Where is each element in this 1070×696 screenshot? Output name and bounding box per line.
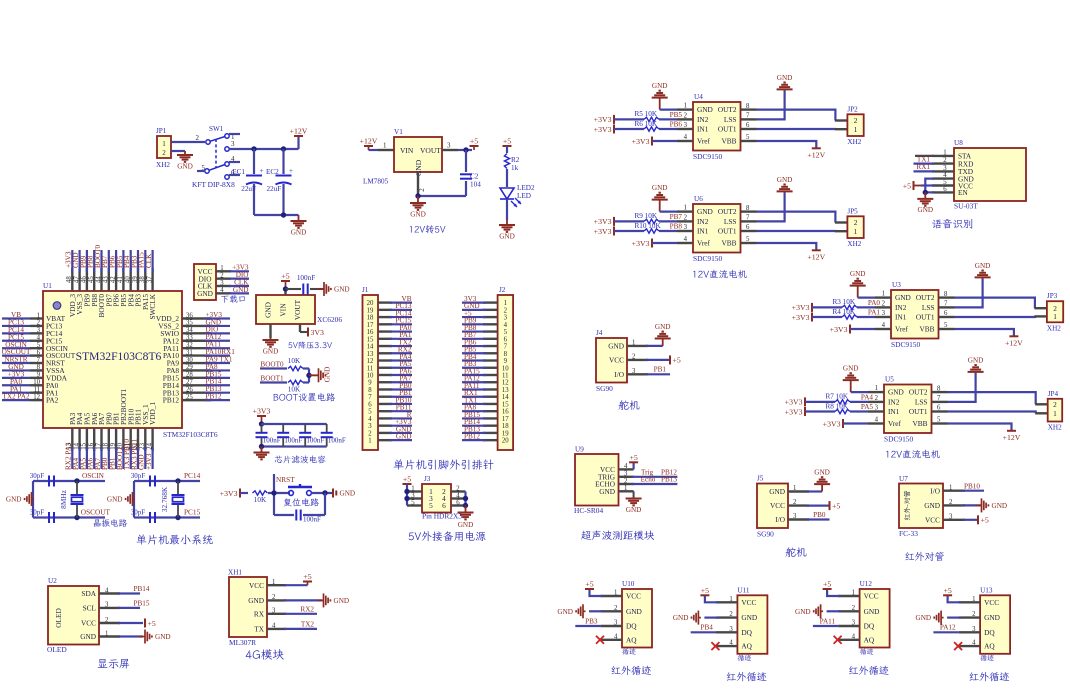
node V1 gnd bbox=[415, 193, 420, 198]
pin U1.37 SWCLK bbox=[151, 268, 153, 291]
svg-text:2: 2 bbox=[614, 605, 618, 612]
svg-text:PC15: PC15 bbox=[184, 508, 201, 517]
wire OUT1 to JP5 bbox=[757, 230, 836, 232]
svg-text:VCC: VCC bbox=[626, 592, 641, 601]
svg-text:OSCOUT: OSCOUT bbox=[81, 508, 111, 517]
svg-text:IN2: IN2 bbox=[697, 115, 709, 124]
svg-text:1: 1 bbox=[1053, 312, 1057, 321]
wire gnd U7 bbox=[963, 504, 981, 506]
connector J5 SG90 bbox=[757, 484, 788, 529]
power +12V U6 bbox=[812, 249, 821, 251]
svg-text:GND: GND bbox=[6, 496, 22, 504]
wire reset bottom bbox=[274, 514, 294, 516]
svg-text:AQ: AQ bbox=[984, 642, 995, 651]
ground port reset bbox=[333, 489, 336, 498]
svg-text:GND: GND bbox=[263, 347, 279, 355]
caption servo J4 bbox=[619, 400, 640, 410]
wire net PB7 bbox=[462, 338, 486, 340]
power +3V3 U6 Vref bbox=[651, 239, 653, 248]
pin U1.18 PB0 bbox=[108, 428, 110, 451]
wire vcc U7 bbox=[963, 519, 977, 521]
svg-text:J4: J4 bbox=[596, 329, 603, 337]
wire net PB5 bbox=[462, 352, 486, 354]
pin U11.4 bbox=[716, 645, 737, 647]
resistor R7 10K bbox=[835, 400, 850, 404]
module U10 tracking bbox=[622, 589, 652, 648]
svg-text:1: 1 bbox=[875, 385, 878, 392]
capacitor 100nF filter 2 bbox=[282, 424, 284, 433]
wire +5 U8 bbox=[921, 184, 934, 186]
wire JP1.1 to SW1 bbox=[171, 141, 205, 143]
svg-text:100nF: 100nF bbox=[303, 516, 321, 524]
svg-text:GND: GND bbox=[895, 293, 911, 302]
pin U7.1 bbox=[943, 490, 965, 492]
svg-text:32: 32 bbox=[186, 342, 193, 349]
svg-text:3: 3 bbox=[943, 165, 947, 172]
wire BOOT1 res to node bbox=[303, 381, 309, 383]
ground U3 pin1 bbox=[850, 279, 866, 298]
pin U4.6 bbox=[741, 128, 757, 130]
wire net PA11 bbox=[205, 347, 230, 349]
pin U1.33 PA12 bbox=[182, 340, 211, 342]
ground U4 pin1 bbox=[652, 91, 668, 110]
svg-text:OUT2: OUT2 bbox=[718, 105, 737, 114]
wire net PB0 bbox=[108, 447, 110, 469]
wire net PB7 bbox=[108, 250, 110, 272]
svg-text:VOUT: VOUT bbox=[420, 146, 441, 155]
pin U1.10 PA0 bbox=[30, 384, 43, 386]
capacitor 30pF bottom bbox=[49, 512, 54, 523]
pin U13.3 bbox=[959, 631, 980, 633]
svg-text:2: 2 bbox=[972, 611, 976, 618]
wire vref bbox=[652, 140, 677, 142]
ground J3 bbox=[458, 506, 474, 520]
pin U12.2 bbox=[838, 610, 859, 612]
pin J2.5 bbox=[483, 330, 498, 332]
pin U1.17 PA7 bbox=[100, 428, 102, 451]
svg-text:1: 1 bbox=[624, 485, 627, 492]
wire net PB3 bbox=[462, 367, 486, 369]
wire net PA6 bbox=[390, 374, 412, 376]
svg-text:2: 2 bbox=[854, 116, 858, 125]
wire OUT1 to JP3 bbox=[955, 315, 1035, 318]
svg-text:+5: +5 bbox=[701, 586, 709, 595]
svg-text:TX2: TX2 bbox=[301, 621, 315, 629]
node U8 gnd bbox=[923, 190, 928, 195]
ground port xtal2 bbox=[126, 492, 135, 506]
pin U1.45 PB8 bbox=[93, 268, 95, 291]
svg-text:5: 5 bbox=[944, 322, 948, 329]
wire +5 U2 bbox=[118, 622, 143, 624]
caption tracking U12 bbox=[849, 666, 889, 675]
svg-text:LM7805: LM7805 bbox=[363, 178, 389, 186]
power +5 U10 bbox=[585, 588, 594, 590]
svg-text:8MHz: 8MHz bbox=[59, 489, 68, 508]
wire EN U8 bbox=[925, 191, 934, 193]
svg-text:VCC: VCC bbox=[864, 592, 879, 601]
svg-text:3: 3 bbox=[972, 626, 976, 633]
pin U5.7 bbox=[932, 401, 948, 403]
svg-text:3V3: 3V3 bbox=[311, 328, 325, 337]
pin U5.5 bbox=[932, 422, 948, 424]
svg-text:5: 5 bbox=[37, 342, 41, 349]
capacitor 100nF filter 4 bbox=[326, 424, 328, 433]
node J3 +5 a bbox=[404, 489, 409, 494]
wire net PB10 bbox=[390, 403, 412, 405]
svg-text:JP3: JP3 bbox=[1047, 292, 1058, 300]
svg-text:OUT1: OUT1 bbox=[718, 125, 737, 134]
wire net PA0 bbox=[2, 384, 30, 386]
resistor R9 10K bbox=[644, 219, 659, 223]
svg-text:JP1: JP1 bbox=[156, 127, 167, 135]
svg-text:I/O: I/O bbox=[614, 370, 624, 379]
svg-text:R4 10K: R4 10K bbox=[833, 308, 856, 316]
svg-text:GND: GND bbox=[155, 633, 171, 641]
connector download port bbox=[194, 264, 216, 300]
svg-text:GND: GND bbox=[652, 82, 668, 90]
wire net PA1 bbox=[2, 392, 30, 394]
pin U1.46 PB9 bbox=[86, 268, 88, 291]
caption 4G module bbox=[246, 649, 284, 660]
wire net PB1 bbox=[390, 396, 412, 398]
pin V1.1 bbox=[378, 149, 394, 151]
svg-text:GND: GND bbox=[655, 323, 671, 331]
svg-text:2: 2 bbox=[943, 157, 947, 164]
pin J2.2 bbox=[483, 309, 498, 311]
pin U2.3 bbox=[99, 607, 120, 609]
svg-text:15: 15 bbox=[367, 336, 374, 343]
pin U9.4 bbox=[619, 468, 634, 470]
pin DL.2 bbox=[216, 277, 231, 279]
svg-text:GND: GND bbox=[324, 367, 332, 383]
svg-text:7: 7 bbox=[37, 357, 41, 364]
pin U8.2 bbox=[932, 162, 954, 164]
svg-text:38: 38 bbox=[139, 276, 146, 283]
caption infrared pair bbox=[905, 552, 943, 561]
pin U1.1 VBAT bbox=[30, 317, 43, 319]
wire GND U8 bbox=[925, 179, 934, 193]
module XH1 4G bbox=[229, 577, 267, 637]
wire net PA6 bbox=[93, 447, 95, 469]
ground filter caps bbox=[254, 447, 270, 460]
pin U9.2 bbox=[619, 483, 634, 485]
svg-text:+5: +5 bbox=[981, 516, 989, 525]
svg-text:OUT2: OUT2 bbox=[718, 207, 737, 216]
pin U1.43 PB7 bbox=[108, 268, 110, 291]
wire net GND bbox=[78, 250, 80, 272]
svg-text:+5: +5 bbox=[903, 181, 911, 190]
wire OUT2 to JP3 bbox=[955, 298, 1035, 309]
svg-text:8: 8 bbox=[937, 385, 941, 392]
pin U10.2 bbox=[601, 610, 622, 612]
svg-text:GND: GND bbox=[107, 496, 123, 504]
svg-text:PA12: PA12 bbox=[940, 624, 956, 632]
svg-text:19: 19 bbox=[367, 307, 374, 314]
pins J3 right bbox=[451, 490, 466, 492]
connector J2 bbox=[498, 295, 513, 450]
svg-text:OLED: OLED bbox=[47, 645, 67, 654]
svg-text:9: 9 bbox=[37, 372, 41, 379]
svg-text:GND: GND bbox=[843, 365, 859, 373]
svg-text:10K: 10K bbox=[288, 386, 301, 394]
wire to resistor bbox=[614, 118, 644, 120]
svg-text:GND: GND bbox=[177, 162, 193, 170]
svg-text:XH2: XH2 bbox=[847, 240, 861, 248]
wire vref bbox=[843, 422, 868, 424]
wire button to gnd bbox=[312, 492, 333, 494]
node xtal1 bottom bbox=[74, 515, 79, 520]
pin DL.3 bbox=[216, 285, 231, 287]
wire gnd to pin1 bbox=[851, 391, 868, 393]
svg-text:16: 16 bbox=[502, 409, 509, 416]
wire PB14 bbox=[118, 592, 140, 594]
wire PA11 bbox=[813, 625, 838, 627]
wire to resistor bbox=[812, 316, 842, 318]
svg-text:PB4: PB4 bbox=[701, 624, 714, 632]
pin JP5.1 bbox=[835, 230, 848, 232]
pin U1.32 PA11 bbox=[182, 347, 211, 349]
connector JP2 bbox=[847, 114, 863, 136]
pin J1.5 bbox=[378, 410, 392, 412]
wire gnd U12 bbox=[827, 610, 841, 612]
svg-text:I/O: I/O bbox=[930, 486, 940, 495]
svg-text:3: 3 bbox=[793, 513, 797, 520]
pin U8.4 bbox=[932, 177, 954, 179]
pin U10.4 bbox=[601, 639, 622, 641]
svg-text:LSS: LSS bbox=[915, 398, 928, 407]
wire net TX1 bbox=[462, 403, 486, 405]
pin XH1.2 bbox=[267, 599, 286, 601]
wire filter top rail bbox=[262, 423, 327, 425]
svg-text:104: 104 bbox=[470, 181, 481, 189]
node xtal1 top bbox=[74, 478, 79, 483]
power +3V3 U4 IN2 bbox=[613, 115, 615, 124]
power 3V3 out bbox=[307, 328, 309, 337]
wire net PB3 bbox=[137, 250, 139, 272]
svg-text:+3V3: +3V3 bbox=[830, 325, 848, 334]
svg-text:4: 4 bbox=[684, 236, 688, 243]
power +5 output bbox=[470, 145, 479, 147]
svg-text:GND: GND bbox=[458, 521, 474, 529]
svg-text:SDC9150: SDC9150 bbox=[891, 340, 920, 349]
svg-text:17: 17 bbox=[502, 416, 509, 423]
wire net PB14 bbox=[205, 384, 230, 386]
wire SW1 pin4 stub bbox=[229, 161, 240, 163]
wire TX2 bbox=[284, 628, 317, 630]
svg-text:18: 18 bbox=[502, 423, 509, 430]
power +3V3 U6 IN1 bbox=[613, 227, 615, 236]
wire gnd J5 bbox=[807, 490, 822, 492]
svg-text:PA0: PA0 bbox=[868, 299, 881, 307]
wire gnd to pin1 bbox=[858, 297, 875, 299]
resistor R2 1k bbox=[504, 154, 509, 169]
svg-text:+: + bbox=[260, 167, 264, 175]
svg-text:6: 6 bbox=[37, 349, 41, 356]
wire VBB to +12V bbox=[948, 424, 1012, 431]
svg-text:Vref: Vref bbox=[697, 239, 710, 248]
svg-text:PB1: PB1 bbox=[654, 366, 667, 374]
pin U4.8 bbox=[741, 108, 757, 110]
svg-text:5: 5 bbox=[746, 134, 750, 141]
svg-text:6: 6 bbox=[746, 122, 750, 129]
wire net BOOT1 bbox=[122, 447, 124, 469]
svg-text:2: 2 bbox=[852, 605, 856, 612]
caption filter caps bbox=[275, 455, 326, 463]
pin U5.4 bbox=[868, 422, 884, 424]
svg-text:1: 1 bbox=[105, 630, 108, 637]
power +3V3 U5 IN2 bbox=[804, 397, 806, 406]
connector JP5 bbox=[847, 216, 863, 238]
wire cap to GND port bbox=[310, 288, 324, 290]
svg-text:IN1: IN1 bbox=[888, 407, 900, 416]
pin U1.27 PB14 bbox=[182, 384, 211, 386]
pin U1.16 PA6 bbox=[93, 428, 95, 451]
svg-text:16: 16 bbox=[367, 329, 374, 336]
pin U1.29 PA8 bbox=[182, 369, 211, 371]
module U11 tracking bbox=[737, 595, 767, 654]
pin U3.7 bbox=[939, 306, 955, 308]
svg-text:VCC: VCC bbox=[81, 619, 96, 628]
svg-text:8: 8 bbox=[746, 205, 750, 212]
svg-text:SDC9150: SDC9150 bbox=[693, 152, 722, 161]
caption BOOT circuit bbox=[273, 393, 335, 402]
wire net +5 bbox=[462, 316, 486, 318]
svg-text:CLK: CLK bbox=[145, 253, 153, 268]
svg-text:GND: GND bbox=[197, 289, 213, 298]
resistor R4 10K bbox=[842, 315, 857, 319]
svg-text:6: 6 bbox=[442, 501, 446, 510]
pin U1.24 VDD_1 bbox=[151, 428, 153, 451]
svg-text:1: 1 bbox=[684, 103, 687, 110]
svg-text:XH2: XH2 bbox=[1048, 424, 1062, 432]
power +5 U12 bbox=[823, 588, 832, 590]
wire net PA10RX1 bbox=[205, 355, 230, 357]
pin U1.39 PB3 bbox=[137, 268, 139, 291]
pin U1.8 VSSA bbox=[30, 369, 43, 371]
svg-text:2: 2 bbox=[729, 611, 733, 618]
svg-text:11: 11 bbox=[502, 373, 509, 380]
pin U1.11 PA1 bbox=[30, 392, 43, 394]
svg-text:30pF: 30pF bbox=[131, 472, 146, 480]
pin U6.3 bbox=[677, 230, 693, 232]
svg-text:GND: GND bbox=[334, 286, 350, 294]
pin U2.4 bbox=[99, 592, 120, 594]
node xtal2 bottom bbox=[175, 515, 180, 520]
svg-text:EC2: EC2 bbox=[266, 168, 279, 176]
pin J5.2 bbox=[788, 504, 809, 506]
pin U6.4 bbox=[677, 242, 693, 244]
wire SW1.3 to +12V rail bbox=[229, 148, 299, 150]
wire gnd U11 bbox=[704, 616, 718, 618]
svg-text:29: 29 bbox=[186, 364, 193, 371]
caption headers bbox=[394, 459, 494, 469]
pin XH1.1 bbox=[267, 584, 286, 586]
pin J2.15 bbox=[483, 403, 498, 405]
driver U6 SDC9150 bbox=[693, 204, 741, 253]
pin U12.1 bbox=[838, 595, 859, 597]
pin U1.34 SWIO bbox=[182, 332, 211, 334]
svg-text:FC-33: FC-33 bbox=[899, 529, 918, 538]
pin XH1.4 bbox=[267, 628, 286, 630]
pin J2.1 bbox=[483, 301, 498, 303]
wire +5 U11 bbox=[705, 595, 719, 602]
net NRST bbox=[273, 474, 275, 515]
pin J5.3 bbox=[788, 518, 809, 520]
wire net PA15 bbox=[462, 374, 486, 376]
wire PA12 bbox=[933, 631, 958, 633]
svg-text:J1: J1 bbox=[362, 286, 369, 294]
svg-text:BOOT1: BOOT1 bbox=[260, 375, 284, 383]
svg-text:GND: GND bbox=[968, 356, 984, 364]
svg-text:1: 1 bbox=[972, 596, 975, 603]
ground port U11 bbox=[692, 611, 701, 625]
pin U10.3 bbox=[601, 625, 622, 627]
wire net PA8 bbox=[462, 410, 486, 412]
pin U1.21 PB10 bbox=[129, 428, 131, 451]
svg-text:ML307R: ML307R bbox=[229, 638, 256, 647]
svg-text:2: 2 bbox=[368, 430, 372, 437]
resistor R10 10K bbox=[644, 229, 659, 233]
wire OUT1 to JP2 bbox=[757, 128, 836, 130]
module U7 FC-33 bbox=[899, 484, 943, 529]
wire +5 U13 bbox=[948, 595, 962, 602]
pin J2.11 bbox=[483, 374, 498, 376]
caption 12V to 5V bbox=[410, 225, 446, 233]
svg-text:GND: GND bbox=[697, 105, 713, 114]
driver U5 SDC9150 bbox=[884, 385, 932, 434]
svg-text:VIN: VIN bbox=[279, 303, 288, 317]
svg-text:11: 11 bbox=[33, 387, 40, 394]
node EC2 bottom bbox=[281, 212, 286, 217]
ground J4 bbox=[655, 332, 671, 346]
wire VIN to cap bbox=[286, 288, 302, 290]
svg-text:2: 2 bbox=[632, 354, 636, 361]
svg-text:PB14: PB14 bbox=[134, 585, 150, 593]
no connect U11 AQ bbox=[711, 642, 719, 650]
wire gnd to pin1 bbox=[660, 211, 677, 213]
pin U6.6 bbox=[741, 230, 757, 232]
svg-text:OUT2: OUT2 bbox=[909, 388, 928, 397]
power +3V3 U5 Vref bbox=[842, 419, 844, 428]
pin U4.2 bbox=[677, 118, 693, 120]
svg-text:30: 30 bbox=[186, 357, 193, 364]
capacitor 100nF filter 3 bbox=[304, 424, 306, 433]
driver U4 SDC9150 bbox=[693, 102, 741, 151]
wire net +3V3 bbox=[229, 270, 249, 272]
wire net GND bbox=[390, 439, 412, 441]
svg-text:IN1: IN1 bbox=[895, 313, 907, 322]
svg-text:+3V3: +3V3 bbox=[220, 489, 238, 498]
wire xtal2 left bbox=[133, 481, 135, 518]
svg-text:VBB: VBB bbox=[721, 239, 736, 248]
svg-text:LSS: LSS bbox=[922, 303, 935, 312]
svg-text:U2: U2 bbox=[48, 577, 57, 585]
regulator XC6206 bbox=[256, 295, 315, 324]
svg-text:SG90: SG90 bbox=[757, 530, 774, 539]
svg-text:6: 6 bbox=[456, 499, 460, 506]
svg-text:GND: GND bbox=[777, 74, 793, 82]
wire resistor to pin bbox=[659, 220, 677, 222]
wire net PA4 bbox=[390, 359, 412, 361]
wire gnd to pin1 bbox=[660, 108, 677, 110]
svg-text:1: 1 bbox=[37, 312, 40, 319]
svg-text:40: 40 bbox=[125, 276, 132, 283]
svg-text:4: 4 bbox=[684, 134, 688, 141]
svg-text:20: 20 bbox=[367, 300, 374, 307]
wire net PA5 bbox=[86, 447, 88, 469]
svg-text:30pF: 30pF bbox=[30, 509, 45, 517]
svg-text:3: 3 bbox=[632, 368, 636, 375]
